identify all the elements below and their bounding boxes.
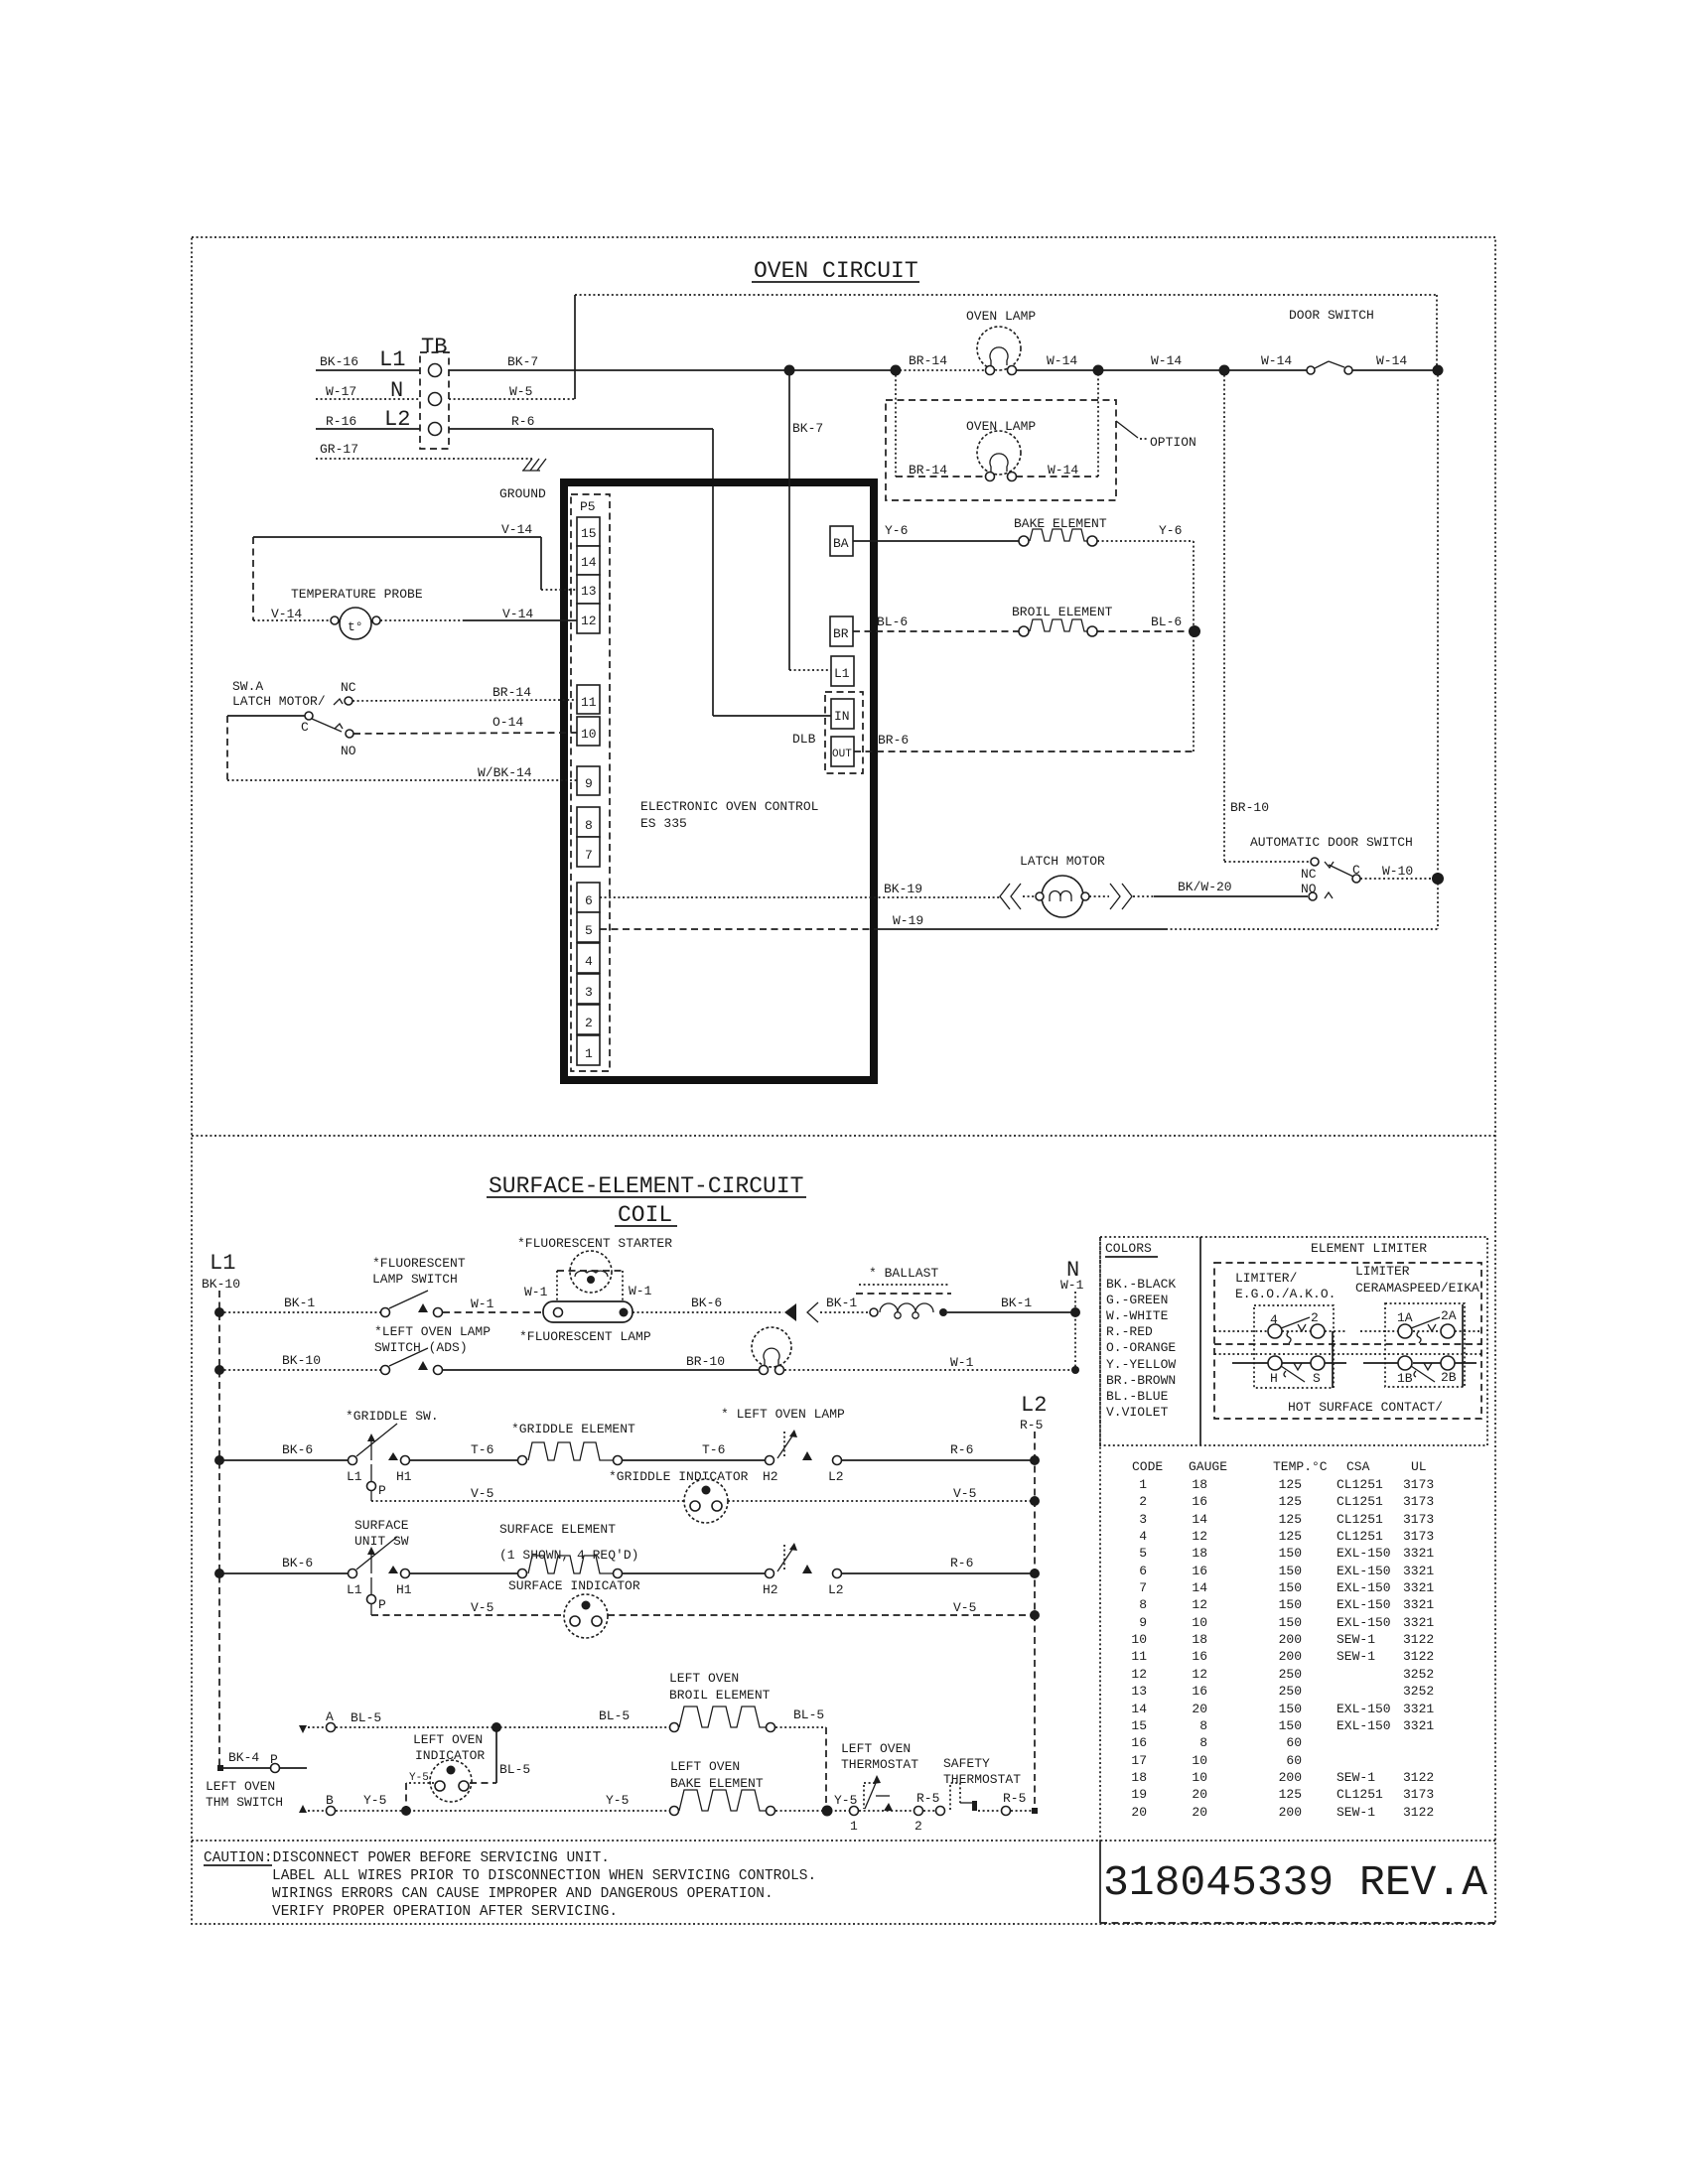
svg-text:3321: 3321 [1403,1615,1434,1630]
svg-text:150: 150 [1279,1580,1302,1595]
pin 14 [577,546,600,575]
svg-text:3122: 3122 [1403,1805,1434,1820]
svg-text:GR-17: GR-17 [320,442,358,457]
node N row1 [1070,1307,1080,1317]
svg-text:BK-1: BK-1 [284,1296,315,1310]
svg-text:3: 3 [1139,1512,1147,1527]
node bake junction [822,1806,833,1817]
wire W-1 to lamp [443,1297,545,1312]
svg-text:1: 1 [850,1819,858,1834]
left oven lamp bulb [752,1327,791,1375]
svg-text:OPTION: OPTION [1150,435,1196,450]
svg-text:3122: 3122 [1403,1770,1434,1785]
svg-text:16: 16 [1192,1564,1207,1578]
pin 8 [577,807,600,837]
left oven bake element [670,1759,775,1816]
svg-text:SEW-1: SEW-1 [1336,1770,1375,1785]
svg-text:BR-6: BR-6 [878,733,909,748]
svg-text:BK-1: BK-1 [826,1296,857,1310]
svg-text:T-6: T-6 [471,1442,493,1457]
svg-text:150: 150 [1279,1718,1302,1733]
svg-text:t°: t° [348,619,363,634]
node W-14 junction A [1093,365,1104,376]
svg-text:R.-RED: R.-RED [1106,1324,1153,1339]
svg-text:15: 15 [1131,1718,1147,1733]
svg-text:BR-10: BR-10 [686,1354,725,1369]
svg-text:LABEL ALL WIRES PRIOR TO DISCO: LABEL ALL WIRES PRIOR TO DISCONNECTION W… [272,1868,816,1884]
svg-text:BK-6: BK-6 [282,1556,313,1570]
svg-text:IN: IN [834,709,850,724]
wire Y-6 right of bake element [1097,523,1194,631]
wire W-1 lamp to N rail [784,1355,1075,1370]
wire BR-10 rail to NC [1224,370,1311,862]
svg-text:BK-10: BK-10 [282,1353,321,1368]
svg-text:3173: 3173 [1403,1494,1434,1509]
right panel divider [1099,1237,1101,1841]
node W-14 junction C [1433,365,1444,376]
svg-text:16: 16 [1192,1684,1207,1699]
pin 10 [577,717,600,746]
pin 13 [577,575,600,604]
svg-text:13: 13 [1131,1684,1147,1699]
svg-text:THM SWITCH: THM SWITCH [206,1795,283,1810]
pin 6 [577,883,600,912]
svg-text:250: 250 [1279,1667,1302,1682]
wire V-5 right row4 [608,1600,1035,1615]
svg-text:1: 1 [585,1046,593,1061]
svg-text:L2: L2 [828,1469,844,1484]
svg-text:6: 6 [585,893,593,908]
svg-text:W-14: W-14 [1151,353,1182,368]
svg-text:4: 4 [1139,1529,1147,1544]
svg-text:GAUGE: GAUGE [1189,1459,1227,1474]
wire BK-1 [219,1296,385,1312]
svg-text:L1: L1 [834,666,850,681]
svg-text:BL-5: BL-5 [599,1708,630,1723]
svg-text:W-1: W-1 [950,1355,974,1370]
left oven thermostat [834,1741,923,1834]
svg-text:CL1251: CL1251 [1336,1494,1383,1509]
wire gauge table [1131,1459,1434,1820]
svg-text:150: 150 [1279,1702,1302,1716]
svg-text:200: 200 [1279,1649,1302,1664]
svg-text:BK-16: BK-16 [320,354,358,369]
wire R-16 [316,414,420,429]
svg-text:AUTOMATIC DOOR SWITCH: AUTOMATIC DOOR SWITCH [1250,835,1413,850]
title block left edge [1099,1841,1101,1923]
svg-text:BA: BA [833,536,849,551]
svg-text:EXL-150: EXL-150 [1336,1702,1391,1716]
svg-text:BL.-BLUE: BL.-BLUE [1106,1389,1169,1404]
svg-text:V-5: V-5 [953,1600,976,1615]
svg-text:R-6: R-6 [511,414,534,429]
svg-text:THERMOSTAT: THERMOSTAT [943,1772,1021,1787]
wire BL-6 BR to broil element [853,614,1021,631]
L1 rail [218,1291,220,1768]
outer page border [192,237,1495,1924]
svg-text:BK-6: BK-6 [282,1442,313,1457]
svg-text:O-14: O-14 [492,715,523,730]
svg-text:3: 3 [585,985,593,1000]
surface indicator lamp [508,1578,640,1638]
wire O-14 NO to pin 10 [353,715,577,734]
svg-text:COIL: COIL [618,1202,672,1228]
option dashed box [886,400,1196,500]
wire V-5 right row3 [728,1486,1035,1501]
svg-text:5: 5 [585,923,593,938]
wire W-5 from TB up and right [449,295,1437,399]
svg-text:ELEMENT LIMITER: ELEMENT LIMITER [1311,1241,1427,1256]
fluorescent starter [517,1236,672,1301]
svg-text:O.-ORANGE: O.-ORANGE [1106,1340,1176,1355]
svg-text:EXL-150: EXL-150 [1336,1615,1391,1630]
pin 5 [577,912,600,942]
svg-text:V.VIOLET: V.VIOLET [1106,1405,1169,1420]
svg-text:12: 12 [581,614,597,628]
svg-text:10: 10 [1192,1615,1207,1630]
broil element [1012,605,1113,636]
svg-text:H2: H2 [763,1582,778,1597]
svg-text:3252: 3252 [1403,1684,1434,1699]
griddle indicator branch [367,1464,685,1501]
svg-text:LIMITER/: LIMITER/ [1235,1271,1298,1286]
griddle element [511,1422,635,1465]
svg-text:W-17: W-17 [326,384,356,399]
DLB dashed box [792,692,863,773]
wire BL-6 right of broil element [1097,614,1195,631]
wire BK-6 row4 [219,1556,352,1573]
svg-text:8: 8 [1199,1718,1207,1733]
svg-text:BL-5: BL-5 [351,1710,381,1725]
svg-text:SW.A: SW.A [232,679,263,694]
limiter EGO box [1214,1305,1346,1388]
node indicator top junction [492,1722,501,1732]
node L2 V5 row3 [1030,1496,1040,1506]
svg-text:125: 125 [1279,1529,1302,1544]
griddle indicator lamp [609,1469,749,1523]
svg-text:BR.-BROWN: BR.-BROWN [1106,1373,1176,1388]
svg-text:H: H [1270,1371,1278,1386]
svg-text:H1: H1 [396,1582,412,1597]
wire BK-16 [316,354,420,370]
svg-text:W-5: W-5 [509,384,532,399]
left oven indicator [409,1732,485,1802]
pin 9 [577,766,600,795]
svg-text:TEMPERATURE PROBE: TEMPERATURE PROBE [291,587,423,602]
node BK-7 junction [784,365,795,376]
wire W-17 [316,384,420,399]
svg-text:3321: 3321 [1403,1702,1434,1716]
svg-text:WIRINGS ERRORS CAN CAUSE IMPRO: WIRINGS ERRORS CAN CAUSE IMPROPER AND DA… [272,1886,774,1902]
svg-text:V-5: V-5 [953,1486,976,1501]
svg-text:10: 10 [1131,1632,1147,1647]
svg-text:Y.-YELLOW: Y.-YELLOW [1106,1357,1176,1372]
svg-text:10: 10 [1192,1770,1207,1785]
connector P5 dashed outline [571,494,610,1071]
svg-text:LEFT OVEN: LEFT OVEN [413,1732,483,1747]
svg-text:3173: 3173 [1403,1512,1434,1527]
svg-text:250: 250 [1279,1684,1302,1699]
svg-text:BR: BR [833,626,849,641]
svg-text:N: N [390,378,403,403]
svg-text:3321: 3321 [1403,1718,1434,1733]
svg-text:*GRIDDLE SW.: *GRIDDLE SW. [346,1409,439,1424]
terminal box L1 [831,656,854,686]
svg-text:12: 12 [1192,1529,1207,1544]
wire BR-14 NC to pin 11 [352,685,577,701]
safety thermostat [936,1756,1039,1816]
svg-text:SURFACE ELEMENT: SURFACE ELEMENT [499,1522,616,1537]
svg-text:* LEFT OVEN LAMP: * LEFT OVEN LAMP [721,1407,845,1422]
L2 rail [1034,1432,1036,1810]
svg-text:CL1251: CL1251 [1336,1529,1383,1544]
svg-text:CL1251: CL1251 [1336,1477,1383,1492]
svg-text:11: 11 [581,695,597,710]
svg-text:*FLUORESCENT: *FLUORESCENT [372,1256,466,1271]
svg-text:BK-6: BK-6 [691,1296,722,1310]
node W-10 junction [1432,873,1444,885]
wire BK-1 to ballast [820,1296,870,1312]
svg-text:3122: 3122 [1403,1649,1434,1664]
wire R-6 from TB to EOC IN [449,414,831,716]
wire BK-6 [219,1442,352,1460]
svg-text:NO: NO [341,744,356,758]
pin 7 [577,837,600,867]
svg-text:W/BK-14: W/BK-14 [478,765,532,780]
svg-text:BROIL ELEMENT: BROIL ELEMENT [669,1688,771,1703]
terminal box BR [830,616,853,646]
svg-text:CERAMASPEED/EIKA: CERAMASPEED/EIKA [1355,1281,1479,1296]
svg-text:9: 9 [585,776,593,791]
svg-text:2B: 2B [1441,1370,1457,1385]
svg-text:EXL-150: EXL-150 [1336,1718,1391,1733]
svg-text:10: 10 [581,727,597,742]
svg-text:W-1: W-1 [1060,1278,1084,1293]
wire R-6 row3 [842,1442,1035,1460]
element limiter panel [1214,1241,1481,1419]
svg-text:R-5: R-5 [916,1791,939,1806]
svg-text:C: C [301,720,309,735]
svg-text:125: 125 [1279,1787,1302,1802]
svg-text:SEW-1: SEW-1 [1336,1805,1375,1820]
svg-text:BAKE ELEMENT: BAKE ELEMENT [670,1776,764,1791]
svg-text:3252: 3252 [1403,1667,1434,1682]
svg-text:200: 200 [1279,1805,1302,1820]
svg-text:17: 17 [1131,1753,1147,1768]
svg-text:BR-10: BR-10 [1230,800,1269,815]
wire BR-6 OUT [854,631,1194,751]
svg-text:150: 150 [1279,1546,1302,1561]
svg-text:BK-7: BK-7 [792,421,823,436]
svg-text:L1: L1 [379,347,405,372]
svg-text:6: 6 [1139,1564,1147,1578]
svg-text:150: 150 [1279,1615,1302,1630]
svg-text:BR-14: BR-14 [909,463,947,478]
node N row2 [1071,1366,1079,1374]
svg-text:LIMITER: LIMITER [1355,1264,1410,1279]
svg-text:GROUND: GROUND [499,486,546,501]
svg-text:CAUTION:DISCONNECT POWER BEFOR: CAUTION:DISCONNECT POWER BEFORE SERVICIN… [204,1850,610,1866]
svg-text:C: C [1352,863,1360,878]
svg-text:S: S [1313,1371,1321,1386]
terminal box OUT [831,737,854,766]
svg-text:OVEN LAMP: OVEN LAMP [966,309,1036,324]
svg-text:*GRIDDLE INDICATOR: *GRIDDLE INDICATOR [609,1469,749,1484]
svg-text:16: 16 [1192,1649,1207,1664]
switch SW.A latch motor [232,679,356,758]
svg-text:Y-5: Y-5 [363,1793,386,1808]
electronic oven control EOC box [564,482,874,1080]
svg-text:BL-6: BL-6 [877,614,908,629]
node L2 label [1020,1393,1047,1433]
node L2 row4 [1030,1569,1040,1578]
svg-text:2: 2 [914,1819,922,1834]
wire T-6 [410,1442,517,1460]
svg-text:P: P [270,1752,278,1767]
wire W-14 segments [1017,353,1307,370]
wire V-14 to pin 12 [380,607,577,621]
svg-text:SAFETY: SAFETY [943,1756,990,1771]
svg-text:3321: 3321 [1403,1597,1434,1612]
svg-text:12: 12 [1192,1667,1207,1682]
wire BK-7 drop to L1 box [789,370,831,670]
terminal box BA [830,526,853,556]
node L1 row3 [214,1455,224,1465]
svg-text:125: 125 [1279,1477,1302,1492]
svg-text:150: 150 [1279,1597,1302,1612]
svg-text:L1: L1 [347,1582,362,1597]
svg-text:BK-10: BK-10 [202,1277,240,1292]
svg-text:8: 8 [1139,1597,1147,1612]
svg-text:7: 7 [585,848,593,863]
svg-text:R-5: R-5 [1003,1791,1026,1806]
svg-text:3173: 3173 [1403,1477,1434,1492]
svg-text:W-1: W-1 [524,1285,548,1299]
svg-text:BR-14: BR-14 [492,685,531,700]
svg-text:20: 20 [1192,1787,1207,1802]
svg-text:W-1: W-1 [629,1284,652,1298]
wire W-14 to right node [1352,353,1438,370]
svg-text:BR-14: BR-14 [909,353,947,368]
svg-text:3321: 3321 [1403,1580,1434,1595]
svg-text:*LEFT OVEN LAMP: *LEFT OVEN LAMP [374,1324,491,1339]
svg-text:CL1251: CL1251 [1336,1512,1383,1527]
svg-text:2: 2 [1139,1494,1147,1509]
fluorescent lamp switch [372,1256,466,1317]
part number title block [1100,1858,1495,1923]
svg-text:2: 2 [585,1016,593,1030]
limiter ceramaspeed box [1360,1303,1479,1387]
svg-text:LAMP SWITCH: LAMP SWITCH [372,1272,458,1287]
wire GR-17 to ground [316,442,532,459]
node L2 row3 [1030,1455,1040,1465]
svg-text:UNIT SW: UNIT SW [354,1534,409,1549]
svg-text:3122: 3122 [1403,1632,1434,1647]
svg-text:16: 16 [1192,1494,1207,1509]
svg-text:*FLUORESCENT STARTER: *FLUORESCENT STARTER [517,1236,672,1251]
section divider line [192,1135,1495,1137]
automatic door switch [1250,835,1438,900]
svg-text:ELECTRONIC OVEN CONTROL: ELECTRONIC OVEN CONTROL [640,799,818,814]
svg-text:SEW-1: SEW-1 [1336,1649,1375,1664]
svg-text:V-14: V-14 [502,607,533,621]
svg-text:W-14: W-14 [1261,353,1292,368]
svg-text:2A: 2A [1441,1308,1457,1323]
fluorescent lamp tube [519,1301,651,1344]
surface indicator branch [367,1577,564,1615]
svg-text:W.-WHITE: W.-WHITE [1106,1308,1169,1323]
svg-text:SURFACE: SURFACE [354,1518,409,1533]
svg-text:Y-5: Y-5 [606,1793,629,1808]
svg-text:B: B [326,1793,334,1808]
colors legend box [1100,1237,1487,1445]
ballast [856,1266,951,1318]
svg-text:8: 8 [1199,1735,1207,1750]
svg-text:13: 13 [581,584,597,599]
svg-text:G.-GREEN: G.-GREEN [1106,1293,1168,1307]
svg-text:LATCH MOTOR/: LATCH MOTOR/ [232,694,326,709]
svg-text:318045339 REV.A: 318045339 REV.A [1103,1858,1487,1907]
left oven lamp flag symbol row3 [721,1407,845,1484]
svg-text:A: A [326,1709,334,1724]
svg-text:VERIFY PROPER OPERATION AFTER: VERIFY PROPER OPERATION AFTER SERVICING. [272,1904,618,1920]
svg-text:125: 125 [1279,1494,1302,1509]
svg-text:BK-1: BK-1 [1001,1296,1032,1310]
caution text [204,1850,816,1920]
svg-text:R-16: R-16 [326,414,356,429]
svg-text:12: 12 [1192,1597,1207,1612]
svg-text:14: 14 [581,555,597,570]
svg-text:OUT: OUT [832,749,852,760]
wire BK-19 pin6 to latch motor [600,882,1000,897]
oven lamp top [966,309,1036,375]
svg-text:*FLUORESCENT LAMP: *FLUORESCENT LAMP [519,1329,651,1344]
svg-text:BK-19: BK-19 [884,882,922,896]
svg-text:14: 14 [1131,1702,1147,1716]
svg-text:L1: L1 [347,1469,362,1484]
svg-text:V-5: V-5 [471,1486,493,1501]
svg-text:125: 125 [1279,1512,1302,1527]
node indicator bottom junction [401,1806,411,1816]
svg-text:LEFT OVEN: LEFT OVEN [670,1759,740,1774]
svg-text:W-14: W-14 [1376,353,1407,368]
svg-text:14: 14 [1192,1580,1207,1595]
svg-text:19: 19 [1131,1787,1147,1802]
svg-text:E.G.O./A.K.O.: E.G.O./A.K.O. [1235,1287,1336,1301]
svg-text:R-5: R-5 [1020,1418,1043,1433]
node L2 V5 row4 [1030,1610,1040,1620]
svg-text:V-5: V-5 [471,1600,493,1615]
svg-text:L2: L2 [1021,1393,1047,1418]
svg-text:BK-4: BK-4 [228,1750,259,1765]
svg-text:DOOR SWITCH: DOOR SWITCH [1289,308,1374,323]
wire T-6 right [623,1442,765,1460]
node L1 row4 [214,1569,224,1578]
pin 11 [577,685,600,714]
connector chevrons [784,1302,818,1322]
svg-text:Y-6: Y-6 [885,523,908,538]
svg-text:1: 1 [1139,1477,1147,1492]
svg-text:CSA: CSA [1346,1459,1370,1474]
svg-text:EXL-150: EXL-150 [1336,1597,1391,1612]
svg-text:EXL-150: EXL-150 [1336,1564,1391,1578]
svg-text:20: 20 [1192,1805,1207,1820]
svg-text:BL-6: BL-6 [1151,614,1182,629]
svg-text:60: 60 [1286,1753,1302,1768]
svg-text:W-14: W-14 [1048,463,1078,478]
svg-text:SEW-1: SEW-1 [1336,1632,1375,1647]
svg-text:200: 200 [1279,1632,1302,1647]
